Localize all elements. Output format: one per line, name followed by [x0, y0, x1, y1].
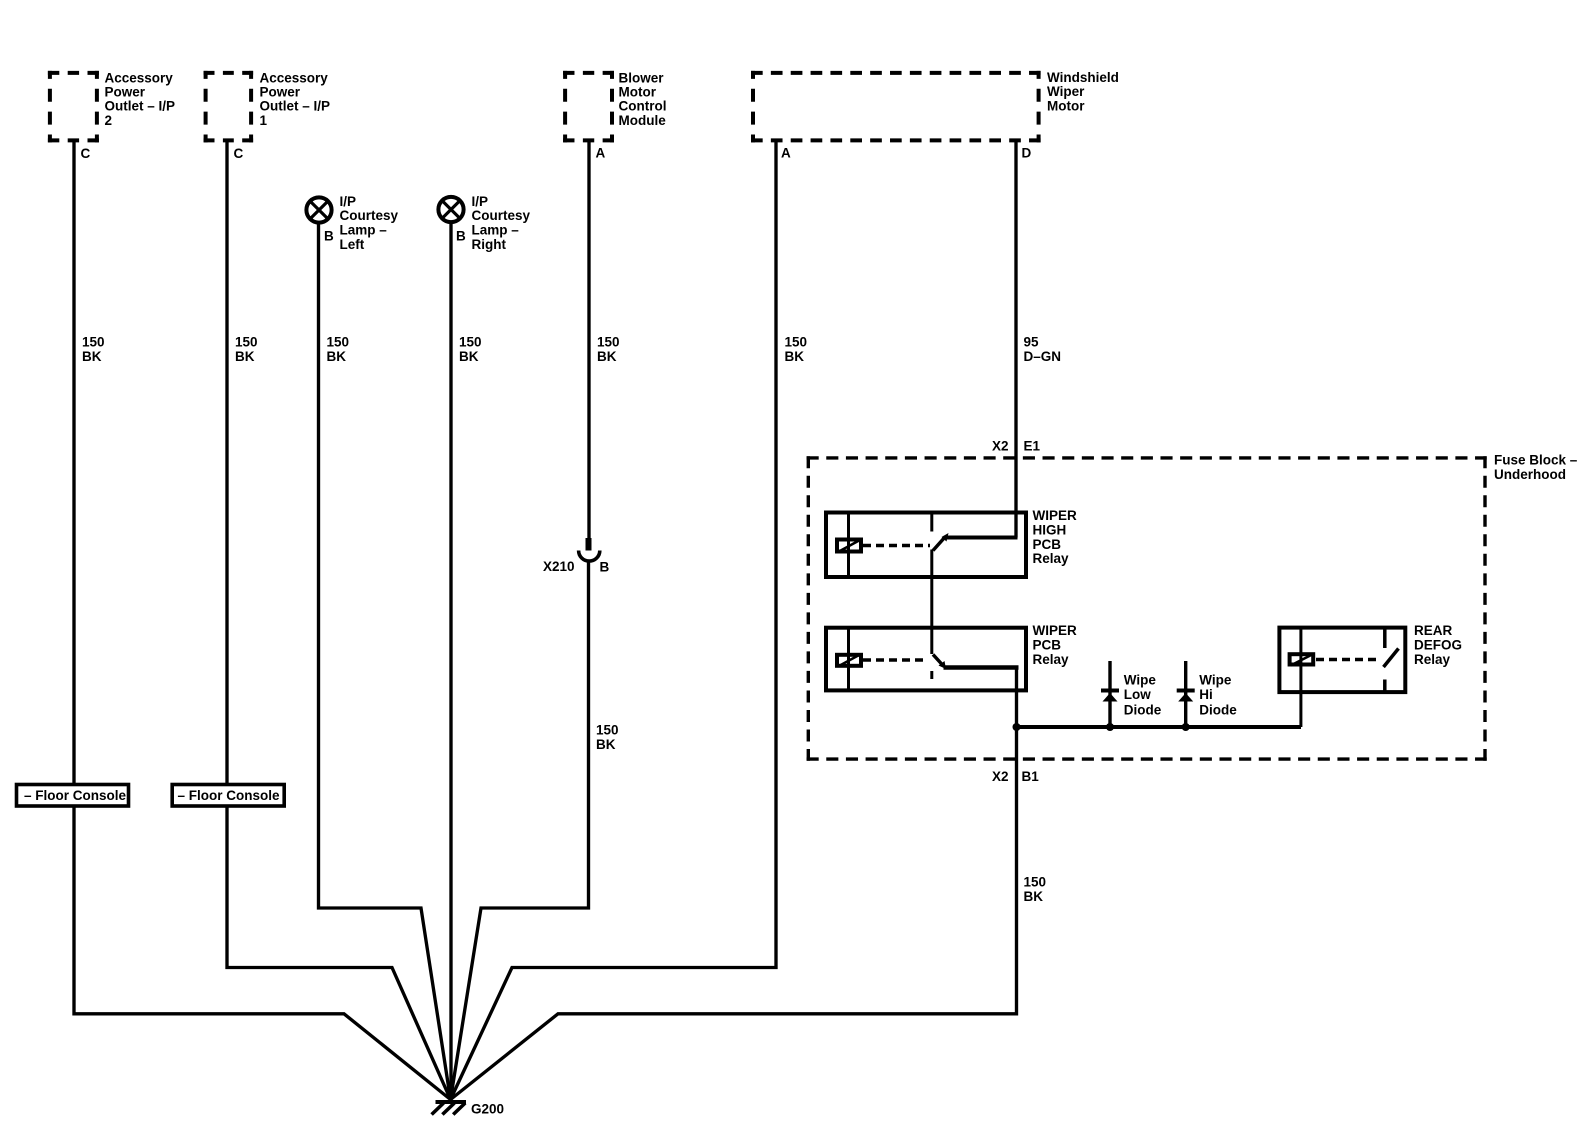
svg-text:Hi: Hi	[1199, 687, 1213, 702]
svg-text:REAR: REAR	[1414, 623, 1453, 638]
svg-text:Outlet – I/P: Outlet – I/P	[105, 99, 176, 114]
svg-text:Module: Module	[619, 113, 667, 128]
svg-text:150: 150	[785, 335, 808, 350]
svg-text:G200: G200	[471, 1102, 504, 1117]
svg-text:95: 95	[1024, 335, 1040, 350]
svg-text:X2: X2	[992, 439, 1009, 454]
svg-text:2: 2	[105, 113, 113, 128]
svg-text:BK: BK	[327, 349, 347, 364]
svg-text:150: 150	[327, 335, 350, 350]
svg-text:Lamp –: Lamp –	[472, 223, 520, 238]
svg-text:D–GN: D–GN	[1024, 349, 1062, 364]
svg-text:BK: BK	[1024, 889, 1044, 904]
svg-text:I/P: I/P	[340, 194, 357, 209]
svg-text:Right: Right	[472, 237, 507, 252]
svg-text:B: B	[456, 229, 466, 244]
svg-text:Wiper: Wiper	[1047, 84, 1085, 99]
svg-text:150: 150	[1024, 875, 1047, 890]
svg-text:PCB: PCB	[1033, 537, 1062, 552]
svg-text:Underhood: Underhood	[1494, 467, 1566, 482]
svg-text:Fuse Block –: Fuse Block –	[1494, 453, 1578, 468]
svg-text:Low: Low	[1124, 687, 1151, 702]
svg-text:Relay: Relay	[1414, 652, 1451, 667]
svg-text:150: 150	[596, 723, 619, 738]
svg-text:BK: BK	[597, 349, 617, 364]
svg-text:150: 150	[459, 335, 482, 350]
svg-text:Courtesy: Courtesy	[340, 208, 399, 223]
svg-text:C: C	[234, 146, 244, 161]
svg-text:Wipe: Wipe	[1124, 672, 1157, 687]
svg-text:I/P: I/P	[472, 194, 489, 209]
svg-text:– Floor Console: – Floor Console	[24, 788, 127, 803]
svg-text:Left: Left	[340, 237, 365, 252]
svg-text:Windshield: Windshield	[1047, 70, 1119, 85]
svg-text:BK: BK	[785, 349, 805, 364]
svg-text:BK: BK	[235, 349, 255, 364]
svg-text:Outlet – I/P: Outlet – I/P	[260, 99, 331, 114]
svg-text:Diode: Diode	[1124, 702, 1162, 717]
svg-text:A: A	[596, 146, 606, 161]
svg-text:Courtesy: Courtesy	[472, 208, 531, 223]
svg-text:Lamp –: Lamp –	[340, 223, 388, 238]
svg-text:150: 150	[597, 335, 620, 350]
svg-text:Accessory: Accessory	[105, 70, 174, 85]
svg-text:B: B	[600, 560, 610, 575]
svg-text:Diode: Diode	[1199, 702, 1237, 717]
svg-text:A: A	[781, 146, 791, 161]
svg-text:Wipe: Wipe	[1199, 672, 1232, 687]
svg-text:X210: X210	[543, 559, 575, 574]
svg-text:DEFOG: DEFOG	[1414, 637, 1462, 652]
svg-text:PCB: PCB	[1033, 637, 1062, 652]
svg-text:Blower: Blower	[619, 70, 665, 85]
svg-text:Motor: Motor	[619, 84, 657, 99]
svg-text:BK: BK	[459, 349, 479, 364]
svg-text:B1: B1	[1022, 769, 1040, 784]
svg-text:Power: Power	[105, 84, 146, 99]
svg-text:BK: BK	[596, 737, 616, 752]
svg-text:C: C	[81, 146, 91, 161]
svg-text:150: 150	[235, 335, 258, 350]
svg-text:Relay: Relay	[1033, 551, 1070, 566]
svg-text:X2: X2	[992, 769, 1009, 784]
svg-text:E1: E1	[1024, 439, 1041, 454]
svg-text:Power: Power	[260, 84, 301, 99]
svg-text:WIPER: WIPER	[1033, 623, 1078, 638]
svg-text:– Floor Console: – Floor Console	[178, 788, 281, 803]
svg-text:1: 1	[260, 113, 268, 128]
svg-text:Motor: Motor	[1047, 98, 1085, 113]
svg-text:HIGH: HIGH	[1033, 523, 1067, 538]
svg-text:B: B	[324, 229, 334, 244]
svg-text:WIPER: WIPER	[1033, 508, 1078, 523]
svg-text:Relay: Relay	[1033, 652, 1070, 667]
svg-text:Control: Control	[619, 99, 667, 114]
svg-text:150: 150	[82, 335, 105, 350]
svg-text:D: D	[1022, 146, 1032, 161]
svg-text:Accessory: Accessory	[260, 70, 329, 85]
svg-text:BK: BK	[82, 349, 102, 364]
